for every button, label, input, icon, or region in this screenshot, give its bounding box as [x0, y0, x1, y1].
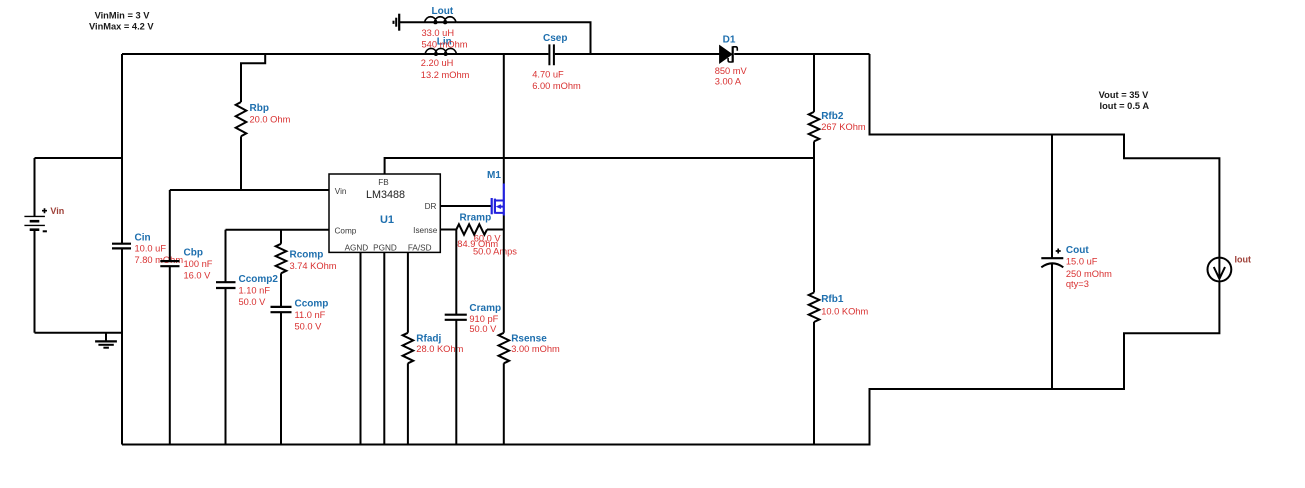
label U1 [380, 214, 394, 226]
svg-text:540 mOhm: 540 mOhm [422, 40, 468, 50]
svg-text:84.9 Ohm: 84.9 Ohm [457, 239, 498, 249]
svg-text:Rramp: Rramp [460, 213, 492, 224]
svg-text:Rfb2: Rfb2 [821, 111, 844, 122]
resistor Rfb1 [809, 293, 820, 322]
capacitor Cramp [445, 315, 467, 320]
value Lin 13.2 mOhm [421, 70, 470, 80]
value Cramp 50.0 V [469, 324, 497, 334]
wire Ccomp2 branch top [225, 230, 227, 282]
wire Rfb branch top lead [813, 54, 815, 112]
svg-text:33.0 uH: 33.0 uH [422, 28, 455, 38]
svg-text:3.74 KOhm: 3.74 KOhm [290, 261, 337, 271]
svg-text:Lout: Lout [432, 6, 454, 17]
wire top rail left segment [122, 53, 548, 55]
svg-text:10.0 uF: 10.0 uF [135, 244, 167, 254]
wire Lout left lead [400, 21, 456, 23]
value Rfb1 10.0 KOhm [821, 306, 868, 316]
capacitor Cbp [160, 261, 179, 266]
svg-text:qty=3: qty=3 [1066, 279, 1089, 289]
svg-text:Ccomp: Ccomp [295, 299, 329, 310]
value Lout 33.0 uH [422, 28, 455, 38]
label Lout [432, 6, 454, 17]
label Lin [437, 37, 452, 48]
resistor Rbp [236, 102, 247, 136]
value M1 50.0 Amps [473, 246, 517, 256]
ground at Lout [394, 14, 400, 31]
value Cramp 910 pF [469, 314, 498, 324]
value Cbp 100 nF [184, 259, 213, 269]
wire Rcomp branch top [280, 230, 282, 244]
svg-text:Vin: Vin [50, 206, 64, 216]
svg-text:1.10 nF: 1.10 nF [239, 285, 271, 295]
wire Ccomp branch bottom [280, 312, 282, 444]
wire left branch lower (Cin to bottom rail) [121, 249, 123, 445]
svg-text:Rsense: Rsense [511, 333, 547, 344]
value Lin 2.20 uH [421, 58, 454, 68]
label Rfb1 [821, 294, 844, 305]
wire Rfb1 bottom lead [813, 322, 815, 445]
svg-text:LM3488: LM3488 [366, 189, 405, 201]
wire Cramp branch bottom [455, 320, 457, 445]
wire Rbp bottom lead [240, 136, 242, 190]
capacitor Cout [1041, 249, 1063, 268]
label Rramp [460, 213, 492, 224]
svg-text:20.0 Ohm: 20.0 Ohm [250, 115, 291, 125]
value Rcomp 3.74 KOhm [290, 261, 337, 271]
svg-text:Rfb1: Rfb1 [821, 294, 844, 305]
svg-text:Vout = 35 V: Vout = 35 V [1099, 90, 1149, 100]
value Lout 540 mOhm [422, 40, 468, 50]
value Cin 7.80 mOhm [135, 255, 184, 265]
wire Vin top [35, 157, 123, 159]
inductor Lin [425, 48, 457, 55]
pin FA/SD [408, 243, 432, 252]
svg-text:13.2 mOhm: 13.2 mOhm [421, 70, 470, 80]
svg-text:FB: FB [378, 178, 389, 187]
svg-text:Cramp: Cramp [469, 303, 501, 314]
ground at Vin [95, 333, 117, 348]
value Cout 15.0 uF [1066, 257, 1098, 267]
wire FA/SD pin lead [407, 252, 409, 332]
svg-text:FA/SD: FA/SD [408, 243, 432, 252]
value Rfadj 28.0 KOhm [416, 344, 463, 354]
wire bottom rail [122, 282, 1219, 445]
pin FB [378, 178, 389, 187]
svg-text:11.0 nF: 11.0 nF [295, 310, 326, 320]
svg-text:VinMin = 3 V: VinMin = 3 V [95, 10, 151, 20]
svg-text:Ccomp2: Ccomp2 [239, 274, 279, 285]
label Rbp [250, 103, 269, 114]
value M1 60.0 V [474, 233, 502, 243]
svg-text:D1: D1 [723, 34, 736, 45]
capacitor Ccomp [271, 307, 292, 312]
svg-text:910 pF: 910 pF [469, 314, 498, 324]
label Rfadj [416, 333, 441, 344]
value Cout qty=3 [1066, 279, 1089, 289]
value Csep 4.70 uF [532, 69, 564, 79]
wire Rramp to M1 source [487, 229, 504, 231]
svg-text:Iout: Iout [1235, 255, 1252, 265]
value Csep 6.00 mOhm [532, 81, 581, 91]
label Rfb2 [821, 111, 844, 122]
wire Cout branch bottom [1051, 264, 1053, 389]
label Iout [1235, 255, 1252, 265]
resistor Rsense [499, 333, 510, 364]
label LM3488 [366, 189, 405, 201]
wire Cbp branch top [169, 190, 171, 261]
pin Comp [335, 227, 357, 236]
svg-text:Vin: Vin [335, 187, 347, 196]
capacitor Csep [549, 44, 554, 65]
svg-text:U1: U1 [380, 214, 394, 226]
svg-text:50.0 V: 50.0 V [239, 297, 267, 307]
value Rbp 20.0 Ohm [250, 115, 291, 125]
resistor Rramp [456, 224, 487, 234]
svg-text:16.0 V: 16.0 V [184, 271, 212, 281]
svg-text:Comp: Comp [335, 227, 357, 236]
wire top rail after D1 [734, 53, 869, 55]
label Csep [543, 33, 567, 44]
svg-text:2.20 uH: 2.20 uH [421, 58, 454, 68]
svg-text:VinMax = 4.2 V: VinMax = 4.2 V [89, 21, 154, 31]
capacitor Ccomp2 [216, 282, 236, 288]
label Vin [50, 206, 64, 216]
svg-text:3.00 A: 3.00 A [715, 76, 742, 86]
label Rsense [511, 333, 547, 344]
svg-text:Csep: Csep [543, 33, 567, 44]
diode D1 [720, 46, 738, 63]
voltage source Vin battery [24, 158, 47, 333]
wire Cramp branch top [455, 230, 457, 315]
wire AGND pin to rail [360, 252, 362, 444]
value Ccomp2 1.10 nF [239, 285, 271, 295]
wire Comp pin net [226, 229, 330, 231]
value Ccomp 11.0 nF [295, 310, 326, 320]
label Ccomp [295, 299, 329, 310]
annotation VinMax [89, 21, 154, 31]
svg-text:Isense: Isense [413, 226, 438, 235]
resistor Rcomp [276, 244, 287, 273]
wire Rfb2 to Rfb1 [813, 141, 815, 292]
wire Vin bottom [35, 332, 123, 334]
svg-text:50.0 V: 50.0 V [295, 322, 323, 332]
svg-text:PGND: PGND [373, 243, 397, 252]
wire Rsense bottom lead [503, 363, 505, 444]
wire drop to M1 drain [503, 54, 505, 184]
value Rfb2 267 KOhm [821, 122, 866, 132]
svg-text:Rcomp: Rcomp [290, 249, 324, 260]
wire Cbp branch bottom [169, 266, 171, 444]
annotation Iout [1100, 101, 1150, 111]
wire Vin pin net [170, 189, 329, 191]
pin Vin [335, 187, 347, 196]
svg-text:10.0 KOhm: 10.0 KOhm [821, 306, 868, 316]
label Ccomp2 [239, 274, 279, 285]
wire Rbp jog from rail [241, 54, 265, 102]
value D1 850 mV [715, 66, 748, 76]
current source Iout [1208, 258, 1232, 282]
label M1 [487, 170, 501, 181]
pin Isense [413, 226, 438, 235]
svg-text:Cout: Cout [1066, 245, 1089, 256]
svg-text:50.0 V: 50.0 V [469, 324, 497, 334]
pin PGND [373, 243, 397, 252]
value Cout 250 mOhm [1066, 269, 1112, 279]
svg-text:Cbp: Cbp [184, 247, 203, 258]
svg-text:Iout = 0.5 A: Iout = 0.5 A [1100, 101, 1150, 111]
wire Ccomp2 branch bottom [225, 288, 227, 444]
svg-text:Cin: Cin [135, 232, 151, 243]
transistor M1 [492, 184, 504, 216]
svg-text:AGND: AGND [345, 243, 369, 252]
svg-text:M1: M1 [487, 170, 501, 181]
svg-text:850 mV: 850 mV [715, 66, 748, 76]
value Cin 10.0 uF [135, 244, 167, 254]
value Cbp 16.0 V [184, 271, 212, 281]
svg-text:100 nF: 100 nF [184, 259, 213, 269]
svg-text:3.00 mOhm: 3.00 mOhm [511, 344, 560, 354]
wire top rail right of Csep [555, 53, 720, 55]
pin DR [425, 202, 437, 211]
svg-text:4.70 uF: 4.70 uF [532, 69, 564, 79]
annotation VinMin [95, 10, 151, 20]
wire Lout right lead and drop [456, 22, 590, 54]
wire left branch upper (rail to Cin) [121, 54, 123, 244]
wire FB net [385, 158, 814, 174]
label Rcomp [290, 249, 324, 260]
resistor Rfadj [403, 333, 414, 364]
wire Rcomp to Ccomp [280, 273, 282, 306]
wire Isense pin lead [440, 229, 456, 231]
value Rramp 84.9 Ohm [457, 239, 498, 249]
svg-text:6.00 mOhm: 6.00 mOhm [532, 81, 581, 91]
wire DR pin to gate [440, 205, 491, 207]
svg-text:Rfadj: Rfadj [416, 333, 441, 344]
value Ccomp2 50.0 V [239, 297, 267, 307]
wire PGND pin to rail [383, 252, 385, 444]
svg-text:15.0 uF: 15.0 uF [1066, 257, 1098, 267]
inductor Lout [425, 17, 457, 24]
value Rsense 3.00 mOhm [511, 344, 560, 354]
op-amp U1 LM3488 box [329, 174, 440, 252]
svg-text:250 mOhm: 250 mOhm [1066, 269, 1112, 279]
wire M1 source to Rsense [503, 216, 505, 333]
svg-text:DR: DR [425, 202, 437, 211]
wire output top right [870, 54, 1220, 258]
label Cbp [184, 247, 203, 258]
wire Rfadj bottom lead [407, 363, 409, 444]
wire Cout branch top [1051, 135, 1053, 259]
value D1 3.00 A [715, 76, 742, 86]
annotation Vout [1099, 90, 1149, 100]
svg-text:Rbp: Rbp [250, 103, 269, 114]
label Cin [135, 232, 151, 243]
capacitor Cin [112, 244, 131, 249]
label Cout [1066, 245, 1089, 256]
label Cramp [469, 303, 501, 314]
resistor Rfb2 [809, 112, 820, 141]
value Ccomp 50.0 V [295, 322, 323, 332]
svg-text:267 KOhm: 267 KOhm [821, 122, 866, 132]
pin AGND [345, 243, 369, 252]
label D1 [723, 34, 736, 45]
